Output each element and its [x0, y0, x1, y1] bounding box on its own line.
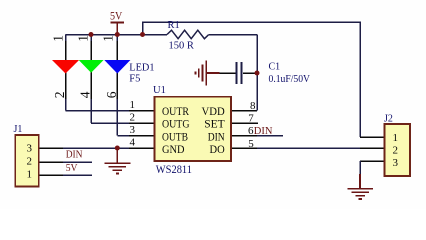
wire DO to J2 pin 2 [257, 147, 360, 149]
IC U1 body [155, 97, 232, 161]
J1 pin 3 stub [39, 147, 63, 149]
J2 pin 2 stub [360, 147, 385, 149]
wire 5V rail right segment (resistor to VDD drop) [209, 34, 257, 36]
wire vertical VDD feed [256, 35, 258, 111]
U1 pin 7 stub (SET) [231, 122, 258, 124]
svg-text:OUTG: OUTG [162, 117, 190, 131]
junction ground tap on GND wire [115, 146, 120, 151]
svg-text:4: 4 [130, 136, 136, 148]
svg-text:GND: GND [162, 142, 185, 156]
U1 pin 1 stub [129, 110, 155, 112]
wire DIN net at J1 [63, 161, 92, 163]
junction C1 on VDD feed [255, 71, 260, 76]
svg-text:2: 2 [393, 145, 399, 157]
LED1 green element [79, 60, 104, 73]
U1 pin 5 stub (DO) [231, 147, 257, 149]
junction top-rail tee [140, 32, 145, 37]
svg-text:1: 1 [101, 35, 116, 42]
J1 pin 1 stub [39, 174, 63, 176]
svg-text:J2: J2 [384, 114, 393, 125]
svg-text:1: 1 [27, 169, 33, 181]
connector J2 body [385, 124, 411, 176]
ground (sideways) at C1 [195, 61, 219, 86]
svg-text:1: 1 [51, 35, 66, 42]
U1 pin 8 stub (VDD) [231, 110, 257, 112]
svg-text:R1: R1 [168, 20, 180, 31]
svg-text:6: 6 [104, 91, 119, 98]
svg-text:5: 5 [248, 138, 254, 150]
svg-text:0.1uF/50V: 0.1uF/50V [269, 74, 311, 85]
LED1 red element [52, 60, 79, 74]
svg-text:WS2811: WS2811 [156, 162, 192, 176]
LED1 blue element [104, 60, 130, 74]
J1 pin 2 stub [39, 161, 63, 163]
svg-text:7: 7 [248, 113, 254, 125]
svg-text:J1: J1 [14, 124, 23, 135]
svg-text:DIN: DIN [254, 126, 273, 137]
svg-text:F5: F5 [129, 74, 140, 85]
svg-text:DIN: DIN [66, 150, 83, 161]
svg-text:8: 8 [250, 100, 256, 112]
resistor R1 [167, 30, 209, 39]
red LED pin stubs [65, 41, 67, 99]
wire 5V net at J1 [63, 174, 92, 176]
svg-text:1: 1 [76, 35, 91, 42]
power symbol 5V [110, 8, 124, 34]
blue LED pin stubs [116, 41, 118, 99]
wire blue LED column [116, 35, 118, 136]
wire J2 pin 3 to ground [359, 161, 361, 175]
wire red LED column [65, 35, 67, 111]
U1 pin 4 stub [129, 147, 155, 149]
wire GND net J1 to U1 [63, 147, 129, 149]
connector J1 body [15, 135, 39, 187]
U1 pin 6 stub (DIN) [231, 135, 257, 137]
wire DIN net at U1 pin 6 [257, 135, 283, 137]
svg-text:5V: 5V [110, 8, 123, 22]
svg-text:1: 1 [130, 99, 136, 111]
svg-text:3: 3 [27, 143, 33, 155]
svg-text:3: 3 [130, 124, 136, 136]
junction green column on rail [89, 32, 94, 37]
ground at GND net (below U1 pin 4 wire) [105, 148, 131, 173]
wire top rail from rail tee to J2 pin 1 [143, 22, 361, 137]
svg-text:C1: C1 [269, 62, 281, 73]
wire blue LED to U1 OUTB [117, 135, 129, 137]
svg-text:4: 4 [78, 91, 93, 98]
svg-text:DO: DO [210, 142, 225, 156]
svg-text:2: 2 [52, 92, 67, 99]
U1 pin 2 stub [129, 122, 155, 124]
svg-text:5V: 5V [66, 163, 78, 174]
junction blue column / 5V on rail [115, 32, 120, 37]
svg-text:U1: U1 [153, 85, 166, 96]
svg-text:LED1: LED1 [129, 62, 154, 73]
green LED pin stubs [90, 41, 92, 99]
svg-text:3: 3 [393, 157, 399, 169]
capacitor C1 [220, 62, 258, 84]
wire red LED to U1 OUTR [66, 110, 130, 112]
wire green LED column [90, 35, 92, 124]
J2 pin 1 stub [360, 136, 385, 138]
wire green LED to U1 OUTG [91, 122, 129, 124]
svg-text:2: 2 [27, 156, 33, 168]
wire 5V rail left segment (red LED corner to resistor) [66, 34, 168, 36]
svg-text:1: 1 [393, 132, 399, 144]
svg-text:SET: SET [204, 117, 225, 131]
svg-text:150 R: 150 R [169, 41, 194, 52]
J2 pin 3 stub [360, 160, 385, 162]
ground at J2 pin 3 [347, 174, 373, 199]
U1 pin 3 stub [129, 135, 155, 137]
svg-text:2: 2 [130, 112, 136, 124]
